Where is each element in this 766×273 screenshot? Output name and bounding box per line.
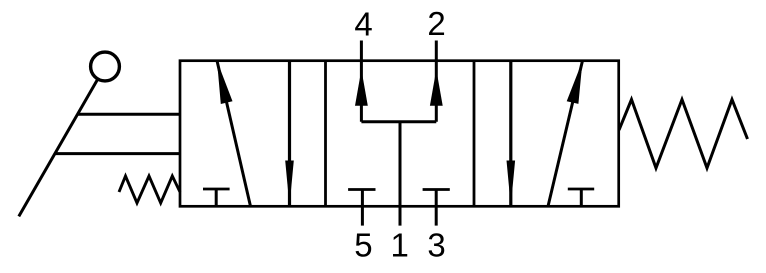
chamber divider left <box>324 61 327 207</box>
port 5 line with blocked T <box>348 190 375 226</box>
chamber divider right <box>473 61 476 207</box>
svg-text:5: 5 <box>354 226 372 263</box>
left chamber diagonal flow arrow (up-left) <box>217 61 251 207</box>
port 2 line <box>435 41 438 122</box>
left chamber vertical flow arrow (down) <box>285 61 294 207</box>
valve body V1 outline <box>180 61 619 207</box>
port 3 line with blocked T <box>423 190 450 226</box>
port 1 line <box>399 122 402 226</box>
detent spring (small, lower left) <box>119 176 180 203</box>
lever knob circle <box>91 52 120 81</box>
right chamber vertical flow arrow (down) <box>507 61 516 207</box>
svg-text:1: 1 <box>391 226 409 263</box>
right chamber blocked port T <box>568 189 594 206</box>
manual lever arm <box>19 67 105 217</box>
port 2 up arrowhead <box>430 70 443 106</box>
right chamber diagonal flow arrow (up-right) <box>548 61 583 207</box>
port 4 line <box>360 41 363 122</box>
center-position bracket joining 4 and 2 <box>361 120 436 123</box>
lever push rod upper line <box>78 113 180 116</box>
svg-text:4: 4 <box>354 6 372 43</box>
left chamber blocked port T <box>203 189 230 206</box>
return spring (right side) <box>619 100 748 169</box>
svg-text:2: 2 <box>427 5 445 42</box>
svg-text:3: 3 <box>427 226 445 263</box>
port 4 up arrowhead <box>355 70 368 106</box>
lever push rod lower line <box>55 152 180 155</box>
